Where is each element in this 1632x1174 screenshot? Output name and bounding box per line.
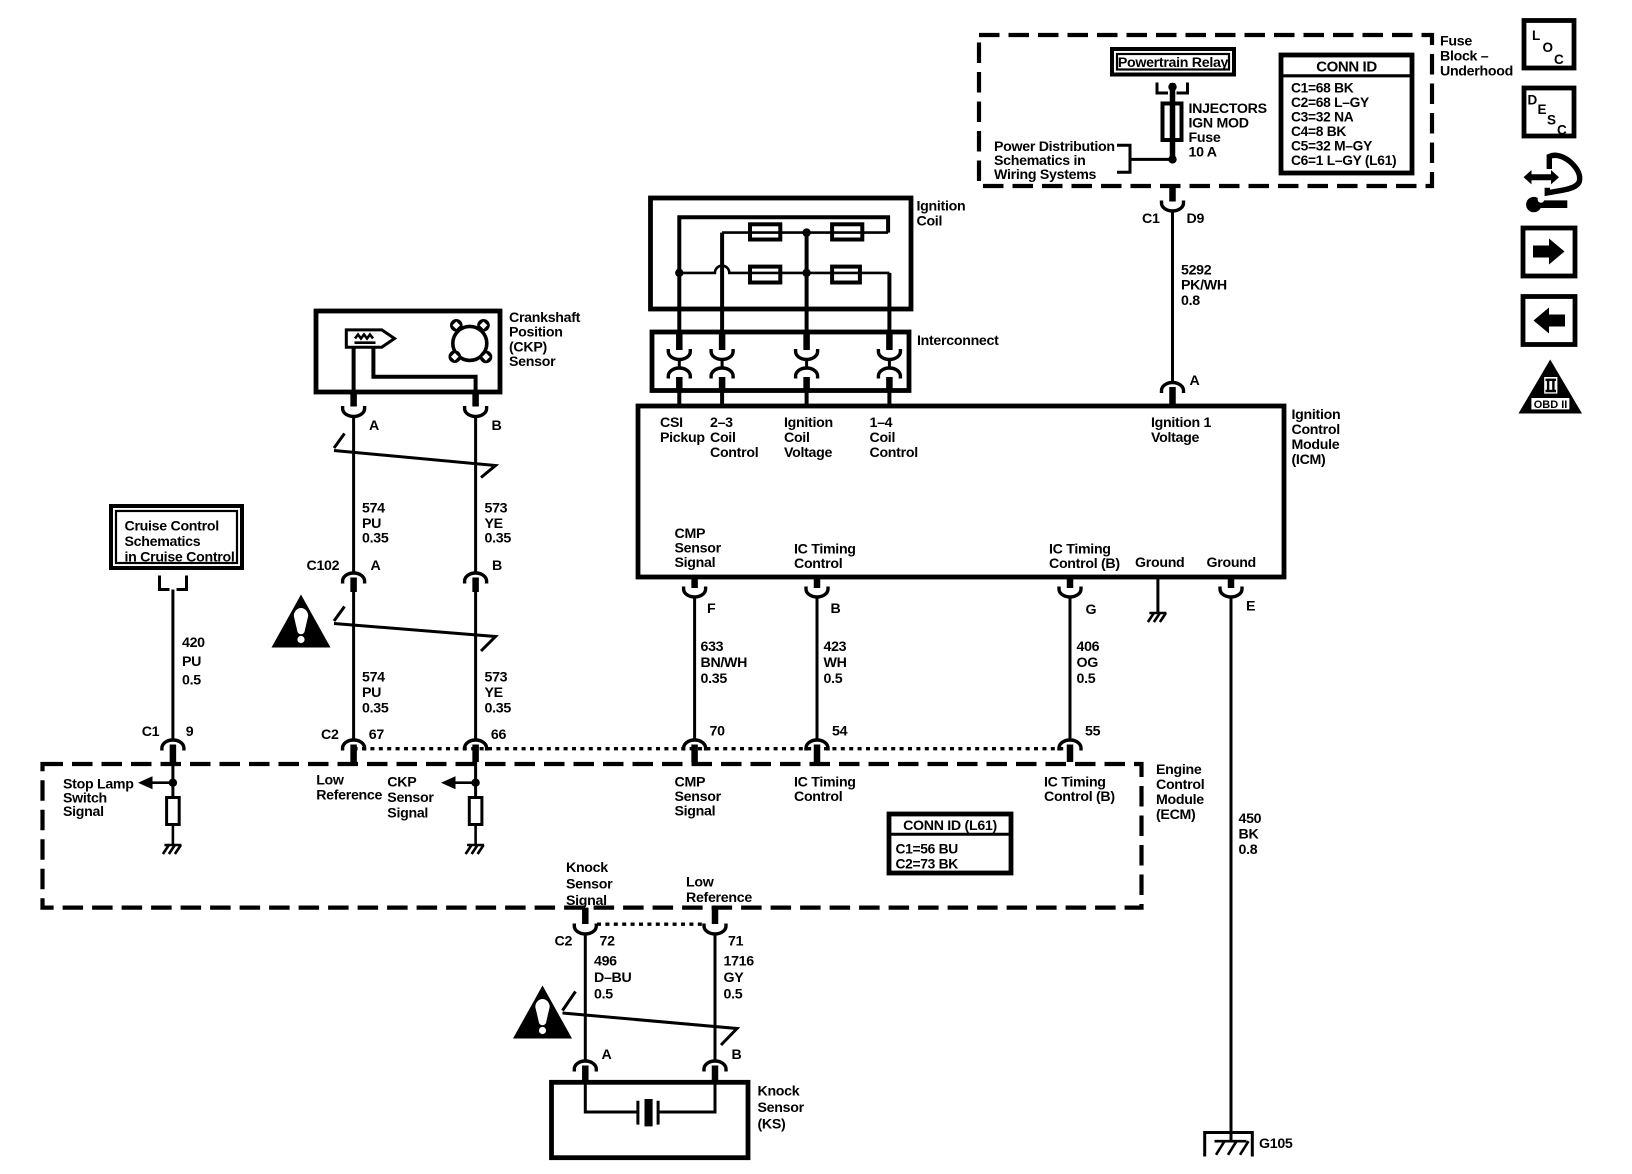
svg-text:71: 71 [728,934,744,950]
svg-text:Module: Module [1156,792,1204,808]
ICM pin E [1220,577,1255,615]
junction dot row2 mid [802,269,810,277]
coil wire w2 down [720,233,724,333]
resistor stop lamp [167,798,180,825]
coil row1 wire [722,231,888,234]
coil wire w1 down [677,273,681,333]
svg-text:C1: C1 [1142,211,1160,227]
svg-text:D: D [1528,93,1538,108]
coil secondary winding resistor R3 [750,267,780,283]
ECM pin 70 [684,724,725,763]
svg-text:574: 574 [362,501,385,517]
coil row2 wire with hop [679,266,889,273]
svg-text:574: 574 [362,670,385,686]
svg-text:450: 450 [1239,811,1262,827]
svg-text:C4=8 BK: C4=8 BK [1291,124,1346,139]
svg-text:Signal: Signal [675,555,716,571]
svg-text:C6=1 L–GY (L61): C6=1 L–GY (L61) [1291,153,1396,168]
coil wire w4 down [887,273,891,333]
svg-text:B: B [492,418,502,434]
svg-text:Interconnect: Interconnect [917,333,999,349]
svg-text:Sensor: Sensor [566,877,613,893]
coil secondary winding resistor R4 [832,267,860,283]
ICM pin G [1059,577,1097,739]
svg-text:Reference: Reference [316,788,382,804]
KS internal leads [585,1082,715,1112]
svg-text:Coil: Coil [870,430,896,446]
ICM pin F [684,577,716,739]
twisted pair symbol upper [334,434,496,478]
svg-text:Underhood: Underhood [1440,64,1513,80]
svg-text:PU: PU [182,654,201,670]
svg-text:Cruise Control: Cruise Control [125,519,219,535]
wire 496 D-BU [584,933,587,1060]
svg-text:L: L [1532,28,1540,43]
ground G105 [1205,1133,1253,1157]
svg-text:Control: Control [870,445,918,461]
svg-text:Knock: Knock [758,1084,800,1100]
svg-text:0.5: 0.5 [724,987,743,1003]
svg-text:Wiring Systems: Wiring Systems [994,167,1097,183]
coil wire w3 down [805,233,809,333]
svg-text:A: A [602,1047,612,1063]
svg-text:OG: OG [1077,655,1099,671]
svg-text:CONN ID: CONN ID [1316,59,1377,76]
svg-text:PK/WH: PK/WH [1181,278,1227,294]
coil primary winding resistor R1 [750,224,780,239]
svg-text:Voltage: Voltage [1151,430,1199,446]
svg-text:GY: GY [724,970,745,986]
ground symbol CKP signal [466,845,485,854]
svg-text:Control: Control [710,445,758,461]
svg-text:C: C [1557,123,1567,138]
svg-text:BN/WH: BN/WH [701,655,748,671]
resistor CKP signal [469,798,482,825]
CKP pin A [343,392,379,434]
svg-text:Sensor: Sensor [509,354,556,370]
shortcut jump icon (double arrow, outline, wrench) [1524,155,1580,212]
ECM pin 55 [1059,724,1101,763]
KS piezo element [645,1099,653,1126]
stop lamp switch signal branch [138,760,177,798]
svg-text:573: 573 [485,501,508,517]
relay contact bracket [1157,83,1188,94]
CONN ID table box [1281,55,1412,173]
svg-text:C: C [1554,52,1564,67]
svg-text:70: 70 [710,724,726,740]
CKP sensor signal branch [441,760,480,798]
svg-text:Coil: Coil [917,214,943,230]
wire to ground [172,825,175,846]
svg-text:O: O [1543,40,1554,55]
svg-text:Coil: Coil [784,430,810,446]
ECM pin 72 exit [574,908,596,934]
CONN ID (L61) table box [889,814,1011,873]
ground symbol ICM [1148,613,1167,622]
ignition coil box [651,198,912,309]
svg-text:C2: C2 [321,727,339,743]
svg-text:Voltage: Voltage [784,445,832,461]
svg-text:0.5: 0.5 [182,673,201,689]
svg-text:(KS): (KS) [758,1117,787,1133]
svg-text:Low: Low [686,875,715,891]
svg-text:(ECM): (ECM) [1156,807,1196,823]
twisted pair symbol knock [563,992,738,1046]
svg-text:54: 54 [832,724,848,740]
interconnect pair w4 [878,332,900,406]
wire 574 PU lower [352,592,355,739]
svg-text:OBD II: OBD II [1534,399,1568,411]
svg-text:Fuse: Fuse [1440,34,1472,50]
knock connector row dotted line [597,923,704,926]
svg-text:Position: Position [509,325,563,341]
connector C102 pin A [343,573,365,592]
svg-text:0.35: 0.35 [485,701,512,717]
svg-text:C2=73 BK: C2=73 BK [896,857,959,872]
svg-text:E: E [1538,102,1547,117]
svg-text:406: 406 [1077,639,1100,655]
svg-text:D9: D9 [1187,211,1205,227]
svg-text:0.35: 0.35 [485,531,512,547]
svg-text:0.35: 0.35 [701,671,728,687]
svg-text:1–4: 1–4 [870,415,893,431]
svg-text:55: 55 [1085,724,1101,740]
svg-text:YE: YE [485,685,503,701]
svg-text:0.35: 0.35 [362,701,389,717]
svg-text:2–3: 2–3 [710,415,733,431]
svg-text:633: 633 [701,639,724,655]
svg-text:Control (B): Control (B) [1044,789,1115,805]
wire 573 YE upper [474,415,477,572]
svg-text:Schematics: Schematics [125,534,201,550]
ECM connector row dotted line [354,747,1070,750]
svg-text:420: 420 [182,635,205,651]
svg-text:WH: WH [824,655,847,671]
svg-text:72: 72 [600,934,616,950]
svg-text:Signal: Signal [63,804,104,820]
CKP reluctor wheel [453,326,487,360]
interconnect box [652,332,909,391]
powertrain relay box [1112,49,1234,75]
fuse block dashed box [979,35,1432,186]
svg-text:(ICM): (ICM) [1292,452,1327,468]
warning triangle 2 [513,986,572,1039]
svg-text:Ignition 1: Ignition 1 [1151,415,1211,431]
knock sensor box [552,1082,749,1157]
warning triangle 1 [272,595,331,648]
svg-text:C1=68 BK: C1=68 BK [1291,81,1354,96]
svg-text:PU: PU [362,685,381,701]
ground symbol stop lamp [163,845,182,854]
svg-text:Control (B): Control (B) [1049,556,1120,572]
svg-text:Ignition: Ignition [784,415,833,431]
svg-text:C2: C2 [555,934,573,950]
interconnect pair w2 [711,332,733,406]
svg-text:Control: Control [794,789,842,805]
svg-text:in Cruise Control: in Cruise Control [125,550,235,566]
wire 574 PU upper [352,415,355,572]
ignition control module box [638,406,1284,577]
ECM pin 71 exit [704,908,726,934]
connector C102 pin B [465,573,487,592]
svg-text:10 A: 10 A [1189,145,1217,161]
coil inner top loop [679,217,888,273]
svg-text:A: A [371,558,381,574]
reluctor lobe BL [449,350,462,363]
svg-text:CONN ID (L61): CONN ID (L61) [903,818,997,834]
svg-text:C102: C102 [307,558,340,574]
svg-text:CKP: CKP [387,775,416,791]
svg-text:Sensor: Sensor [758,1100,805,1116]
svg-text:A: A [1190,373,1200,389]
svg-text:C1: C1 [142,724,160,740]
svg-text:E: E [1246,599,1255,615]
svg-text:Signal: Signal [675,804,716,820]
svg-text:Engine: Engine [1156,762,1202,778]
svg-text:F: F [707,601,716,617]
junction dot relay [1168,83,1176,91]
junction dot row2 left [675,269,683,277]
wire 5292 PK/WH [1171,213,1174,382]
svg-text:496: 496 [594,954,617,970]
svg-text:67: 67 [369,727,385,743]
right arrow icon box [1523,228,1575,276]
off-page bracket below cruise box [160,576,187,590]
CONN ID header separator [1281,74,1412,77]
ECM pin C2 67 [321,727,384,762]
svg-text:Ignition: Ignition [1292,407,1341,423]
ECM pin C1 9 [142,724,194,762]
svg-text:Powertrain Relay: Powertrain Relay [1118,55,1229,71]
KS piezo plates [638,1101,658,1125]
reluctor lobe TL [450,319,463,332]
svg-text:Low: Low [316,773,345,789]
left arrow icon box [1523,297,1575,345]
svg-text:Block –: Block – [1440,49,1489,65]
svg-text:CSI: CSI [660,415,683,431]
twisted pair symbol lower [334,607,496,652]
svg-text:0.8: 0.8 [1181,293,1200,309]
reluctor lobe BR [480,351,493,364]
svg-text:D–BU: D–BU [594,970,631,986]
svg-text:G: G [1086,602,1097,618]
engine control module dashed box [43,764,1142,908]
DESC icon box [1524,88,1574,138]
svg-text:Control: Control [1156,777,1204,793]
svg-text:5292: 5292 [1181,263,1212,279]
svg-text:0.5: 0.5 [1077,671,1096,687]
svg-text:Sensor: Sensor [387,790,434,806]
svg-text:B: B [732,1047,742,1063]
junction dot fuse node [1168,155,1176,163]
svg-text:Ground: Ground [1135,555,1184,571]
svg-text:573: 573 [485,670,508,686]
interconnect pair w3 [796,332,818,406]
svg-text:A: A [369,418,379,434]
wire 420 PU [171,590,174,740]
CKP pickup coil symbol [346,330,394,347]
wire relay to fuse [1170,83,1176,159]
coil primary winding resistor R2 [832,224,862,239]
svg-text:B: B [492,558,502,574]
CKP internal wire B [373,347,475,392]
svg-text:0.35: 0.35 [362,531,389,547]
svg-text:Control: Control [1292,422,1340,438]
connector C1 D9 [1162,201,1184,212]
svg-text:C1=56 BU: C1=56 BU [896,842,959,857]
note bracket [1117,145,1172,172]
svg-text:C2=68 L–GY: C2=68 L–GY [1291,95,1369,110]
svg-text:B: B [831,601,841,617]
svg-text:Pickup: Pickup [660,430,705,446]
ECM pin 66 [465,727,507,762]
svg-text:Ground: Ground [1207,555,1256,571]
svg-text:Module: Module [1292,437,1340,453]
svg-text:0.5: 0.5 [594,987,613,1003]
CKP internal wire A [352,347,356,392]
wire 5292 exits fuse box [1169,186,1176,202]
svg-text:0.5: 0.5 [824,671,843,687]
svg-text:1716: 1716 [724,954,755,970]
OBD II warning triangle icon [1519,360,1583,414]
LOC icon box [1524,21,1574,69]
ECM pin 54 [806,724,848,763]
svg-text:9: 9 [186,724,194,740]
ICM pin B [806,577,841,739]
svg-text:0.8: 0.8 [1239,842,1258,858]
svg-text:Reference: Reference [686,890,752,906]
wire 450 BK [1230,597,1233,1142]
fuse INJECTORS IGN MOD 10A [1163,104,1182,141]
svg-text:G105: G105 [1259,1136,1293,1152]
cruise control box [111,506,242,568]
interconnect pair w1 [668,332,690,406]
svg-text:C3=32 NA: C3=32 NA [1291,110,1354,125]
ICM ground wire [1156,577,1159,613]
svg-text:Knock: Knock [566,860,608,876]
svg-text:423: 423 [824,639,847,655]
crankshaft position sensor box [316,311,500,392]
svg-text:C5=32 M–GY: C5=32 M–GY [1291,139,1372,154]
CKP pin B [465,392,502,434]
wire 1716 GY [714,933,717,1060]
junction dot row1 [802,228,810,236]
svg-text:Signal: Signal [387,806,428,822]
svg-text:Ignition: Ignition [917,199,966,215]
reluctor lobe TR [477,319,490,332]
svg-text:Signal: Signal [566,893,607,909]
svg-text:Control: Control [794,556,842,572]
svg-text:66: 66 [491,727,507,743]
svg-text:BK: BK [1239,827,1260,843]
wire 573 YE lower [474,592,477,739]
svg-text:S: S [1547,113,1556,128]
svg-text:Coil: Coil [710,430,736,446]
KS pin B [704,1047,742,1082]
wire to ground [474,825,477,846]
KS pin A [574,1047,611,1082]
